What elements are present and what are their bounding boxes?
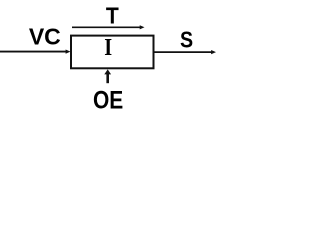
svg-text:VC: VC: [29, 24, 61, 50]
wire OE enable arrow: [106, 74, 109, 83]
svg-text:OE: OE: [93, 87, 123, 115]
wire T period arrow: [72, 26, 141, 28]
svg-text:T: T: [106, 2, 119, 28]
svg-text:S: S: [180, 27, 193, 53]
wire VC input: [0, 51, 67, 53]
arrowhead OE into block: [104, 69, 111, 74]
arrowhead T: [140, 25, 145, 29]
block U1 box: [71, 36, 154, 69]
wire S output: [154, 51, 212, 53]
svg-text:I: I: [104, 35, 112, 61]
arrowhead S: [211, 50, 216, 54]
arrowhead VC into block: [66, 50, 71, 54]
